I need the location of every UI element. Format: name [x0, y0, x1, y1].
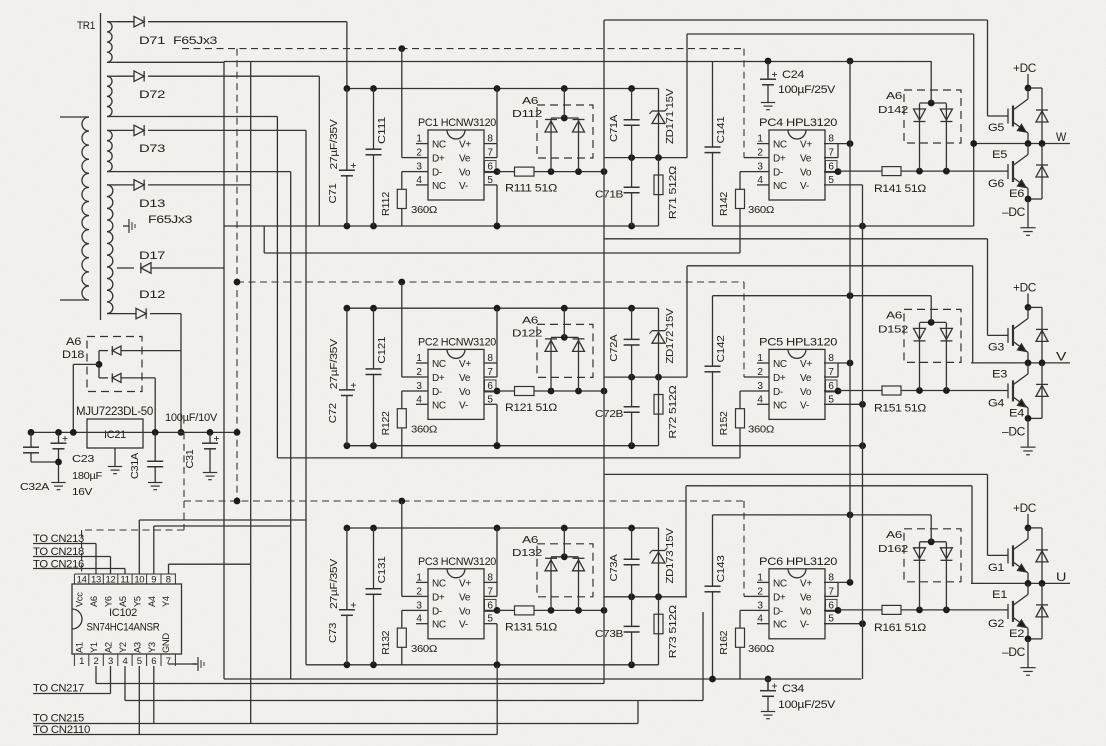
svg-text:PC3 HCNW3120: PC3 HCNW3120: [418, 556, 496, 568]
resistor R141 51 ohm: [882, 167, 901, 176]
svg-text:360Ω: 360Ω: [748, 423, 774, 435]
svg-text:SN74HC14ANSR: SN74HC14ANSR: [87, 622, 161, 634]
capacitor C31A: [154, 432, 156, 461]
wire G3 gate feed: [604, 238, 988, 240]
primary bottom lead: [60, 299, 89, 301]
PC6 D- to resistor R162: [740, 609, 757, 611]
svg-text:7: 7: [166, 656, 171, 667]
row2 supply rail top: [347, 307, 659, 309]
svg-text:14: 14: [77, 575, 87, 586]
D122 diode a: [550, 338, 552, 391]
svg-text:Y3: Y3: [147, 642, 157, 653]
PC5 pin 6 number box: [826, 380, 838, 392]
svg-text:PC1 HCNW3120: PC1 HCNW3120: [418, 117, 496, 129]
svg-text:D18: D18: [62, 349, 84, 361]
svg-text:Vo: Vo: [800, 606, 812, 617]
svg-text:13: 13: [91, 575, 101, 586]
PC6 D+ from dashed bus: [744, 595, 757, 597]
wire pin10 Y5 feed: [138, 520, 140, 574]
diode D12: [117, 313, 136, 315]
wire E1 reference: [686, 485, 972, 487]
svg-text:3: 3: [416, 600, 422, 611]
svg-text:C31: C31: [184, 449, 196, 468]
svg-text:Ve: Ve: [459, 592, 471, 603]
PC3 V+ pins 7 8 to rail: [484, 581, 497, 583]
TR1 secondary winding 3: [107, 130, 112, 171]
svg-text:ZD171 15V: ZD171 15V: [664, 89, 676, 144]
freewheel diode G1: [1028, 527, 1042, 529]
svg-text:100µF/25V: 100µF/25V: [778, 84, 836, 96]
capacitor C34 100uF/25V: [767, 678, 769, 691]
wire Vo to clamp diodes: [534, 171, 604, 173]
resistor R142 360 ohm: [736, 189, 745, 208]
row3 supply rail top: [347, 527, 659, 529]
node E2 emitter: [1025, 636, 1032, 643]
PC6 pin 6 number box: [826, 599, 838, 611]
svg-text:Vo: Vo: [459, 606, 471, 617]
svg-text:1: 1: [757, 353, 763, 364]
svg-text:1: 1: [416, 134, 422, 145]
svg-text:V+: V+: [459, 578, 471, 589]
svg-text:G4: G4: [988, 397, 1004, 409]
svg-text:1: 1: [416, 572, 422, 583]
svg-text:C73B: C73B: [595, 628, 623, 640]
svg-text:1: 1: [79, 656, 84, 667]
svg-text:E5: E5: [992, 149, 1007, 161]
diode D71: [117, 21, 134, 23]
svg-text:E6: E6: [1009, 188, 1024, 200]
wire CN2110 riser: [496, 665, 498, 735]
freewheel diode G5: [1028, 87, 1042, 89]
op-amp PC3 HCNW3120 gate driver: [428, 569, 484, 639]
svg-text:Vo: Vo: [459, 387, 471, 398]
svg-text:D+: D+: [773, 373, 786, 384]
svg-text:4: 4: [416, 614, 422, 625]
svg-text:A4: A4: [147, 596, 157, 607]
node U top: [1025, 525, 1032, 532]
svg-text:Ve: Ve: [459, 373, 471, 384]
svg-text:C73A: C73A: [608, 554, 620, 581]
wire Vo to clamp diodes: [534, 390, 604, 392]
svg-text:C31A: C31A: [129, 453, 141, 479]
capacitor C111: [373, 89, 375, 227]
wire winding2 return: [117, 116, 277, 118]
svg-text:C131: C131: [376, 556, 388, 584]
svg-text:C24: C24: [782, 69, 804, 81]
PC3 V- pin 5 to rail: [484, 623, 497, 625]
PC5 D+ from dashed bus: [744, 376, 757, 378]
PC6 Vo pin 6 output: [824, 609, 838, 611]
wire vertical bus x264: [263, 226, 265, 253]
svg-text:D+: D+: [432, 154, 445, 165]
svg-text:F65Jx3: F65Jx3: [148, 214, 192, 226]
svg-text:360Ω: 360Ω: [411, 423, 437, 435]
svg-text:4: 4: [757, 394, 763, 405]
svg-text:A1: A1: [75, 642, 85, 653]
svg-text:R112: R112: [380, 192, 392, 216]
svg-text:G2: G2: [988, 618, 1004, 630]
svg-text:C72: C72: [327, 403, 339, 423]
wire R152 return: [277, 457, 740, 459]
svg-text:360Ω: 360Ω: [411, 643, 437, 655]
svg-text:C141: C141: [715, 116, 727, 144]
op-amp PC5 HPL3120 gate driver: [769, 349, 825, 419]
svg-text:+DC: +DC: [1013, 503, 1036, 515]
svg-text:100µF/10V: 100µF/10V: [165, 412, 218, 424]
PC4 pin 6 number box: [826, 161, 838, 173]
svg-text:6: 6: [151, 656, 156, 667]
svg-text:Ve: Ve: [459, 154, 471, 165]
wire D12 to IC21 rail: [180, 314, 182, 433]
node W phase output: [971, 143, 1070, 145]
svg-text:12: 12: [106, 575, 116, 586]
D132 diode a: [550, 557, 552, 610]
TR1 secondary winding 1: [107, 22, 112, 63]
PC1 pin 6 number box: [485, 161, 497, 173]
resistor R131 51 ohm: [515, 606, 535, 615]
svg-text:V+: V+: [800, 578, 812, 589]
svg-text:1: 1: [416, 353, 422, 364]
op-amp PC2 HCNW3120 gate driver: [428, 349, 484, 419]
svg-text:Ve: Ve: [800, 373, 812, 384]
svg-text:R132: R132: [380, 630, 392, 654]
PC4 Ve pin 7 stub: [824, 157, 838, 159]
svg-text:C73: C73: [327, 623, 339, 643]
svg-text:D112: D112: [512, 108, 543, 120]
zener ZD173 15V: [658, 528, 660, 597]
svg-text:5: 5: [137, 656, 142, 667]
wire R141 to gate: [901, 170, 1008, 172]
svg-text:2: 2: [757, 148, 763, 159]
capacitor C73A: [631, 528, 633, 597]
wire D18 to rail: [73, 363, 99, 365]
svg-text:D73: D73: [139, 143, 165, 155]
svg-text:TO CN217: TO CN217: [33, 683, 84, 695]
D122 common cathode to rail: [551, 336, 579, 338]
PC1 D+ input riser: [402, 157, 416, 159]
op-amp PC6 HPL3120 gate driver: [769, 569, 825, 639]
svg-text:V+: V+: [459, 140, 471, 151]
svg-text:V-: V-: [800, 620, 809, 631]
PC5 Vo pin 6 output: [824, 390, 838, 392]
svg-text:3: 3: [108, 656, 113, 667]
capacitor C32A: [30, 432, 32, 447]
svg-text:E3: E3: [992, 368, 1007, 380]
svg-text:F65Jx3: F65Jx3: [173, 35, 217, 47]
capacitor C131: [373, 528, 375, 665]
svg-text:A2: A2: [104, 642, 114, 653]
svg-text:2: 2: [757, 586, 763, 597]
wire bottom link 2: [125, 700, 703, 702]
capacitor C72A: [631, 308, 633, 377]
transistor G6 IGBT low side: [1027, 144, 1029, 155]
svg-text:2: 2: [757, 367, 763, 378]
capacitor C72 27uF/35V electrolytic: [346, 308, 348, 446]
svg-text:NC: NC: [773, 578, 787, 589]
svg-text:A6: A6: [886, 309, 903, 321]
svg-text:R161 51Ω: R161 51Ω: [874, 622, 926, 634]
svg-text:A3: A3: [132, 642, 142, 653]
svg-text:D-: D-: [773, 606, 783, 617]
svg-text:16V: 16V: [72, 486, 92, 498]
svg-text:D-: D-: [432, 606, 442, 617]
dual clamp diode D132 dashed box: [537, 544, 593, 597]
PC4 D- to resistor R142: [740, 171, 757, 173]
dashed Vcc bus row2 horizontal: [237, 281, 744, 283]
svg-text:A6: A6: [522, 95, 539, 107]
D132 diode b: [578, 557, 580, 610]
PC1 V- pin 5 to rail: [484, 184, 497, 186]
D112 diode b: [578, 119, 580, 172]
svg-text:3: 3: [757, 600, 763, 611]
row2 supply rail bottom: [346, 445, 659, 447]
svg-text:V+: V+: [800, 140, 812, 151]
PC5 V+ pin 8 to bus: [824, 362, 850, 364]
zener ZD172 15V: [658, 308, 660, 377]
dual clamp diode D122 dashed box: [537, 324, 593, 377]
svg-text:360Ω: 360Ω: [411, 204, 437, 216]
svg-text:ZD173 15V: ZD173 15V: [664, 528, 676, 583]
svg-text:NC: NC: [432, 620, 446, 631]
svg-text:IC21: IC21: [104, 429, 126, 441]
svg-text:ZD172 15V: ZD172 15V: [664, 308, 676, 363]
svg-text:C23: C23: [72, 453, 95, 465]
svg-text:D+: D+: [773, 592, 786, 603]
svg-text:360Ω: 360Ω: [748, 204, 774, 216]
svg-text:Y6: Y6: [104, 596, 114, 607]
svg-text:R111 51Ω: R111 51Ω: [505, 183, 557, 195]
svg-text:C71A: C71A: [608, 115, 620, 142]
PC3 Vo pin 6 output: [484, 609, 497, 611]
svg-text:NC: NC: [773, 620, 787, 631]
svg-text:Ve: Ve: [800, 154, 812, 165]
wire bottom link row: [96, 683, 604, 685]
svg-text:Y5: Y5: [132, 596, 142, 607]
capacitor C141: [712, 61, 714, 226]
svg-text:Ve: Ve: [800, 592, 812, 603]
hex inverter IC102 SN74HC14ANSR: [72, 584, 182, 654]
svg-text:V-: V-: [459, 400, 468, 411]
svg-text:NC: NC: [773, 181, 787, 192]
svg-text:E2: E2: [1009, 628, 1024, 640]
wire vertical bus x277: [276, 117, 278, 458]
PC6 supply rail: [713, 514, 932, 516]
svg-text:8: 8: [166, 575, 171, 586]
svg-text:–DC: –DC: [1002, 647, 1025, 659]
svg-text:G5: G5: [988, 122, 1004, 134]
svg-text:D132: D132: [512, 547, 543, 559]
PC4 Vo pin 6 output: [824, 171, 838, 173]
svg-text:V-: V-: [800, 181, 809, 192]
capacitor C142: [712, 296, 714, 446]
svg-text:C142: C142: [715, 335, 727, 363]
supply rail from IC21: [29, 431, 237, 433]
svg-text:PC4 HPL3120: PC4 HPL3120: [759, 117, 837, 129]
PC6 V- pin 5 to bus: [824, 623, 863, 625]
svg-text:R142: R142: [718, 192, 730, 216]
D162 common cathode to rail: [920, 541, 947, 543]
PC3 D+ input riser: [402, 595, 416, 597]
PC5 D- to resistor R152: [740, 390, 757, 392]
svg-text:A6: A6: [886, 529, 903, 541]
resistor R72 512 ohm: [658, 377, 660, 446]
svg-text:NC: NC: [773, 359, 787, 370]
D132 common cathode to rail: [551, 556, 579, 558]
svg-text:V-: V-: [800, 400, 809, 411]
V- bus vertical: [862, 185, 864, 679]
wire winding1 return to bus: [117, 61, 224, 63]
wire vertical bus x306 from D73: [305, 130, 307, 664]
svg-text:D-: D-: [432, 168, 442, 179]
dual clamp diode D112 dashed box: [537, 105, 593, 158]
resistor R151 51 ohm: [882, 386, 901, 395]
resistor R122 360 ohm: [402, 390, 416, 392]
svg-text:MJU7223DL-50: MJU7223DL-50: [76, 406, 153, 418]
svg-text:V-: V-: [459, 620, 468, 631]
diode D73: [117, 129, 134, 131]
svg-text:R71 512Ω: R71 512Ω: [667, 166, 679, 220]
PC6 common rail bottom long: [224, 678, 861, 680]
row1 supply rail top: [347, 88, 659, 90]
svg-text:C111: C111: [376, 116, 388, 144]
svg-text:NC: NC: [432, 578, 446, 589]
D152 common cathode to rail: [920, 321, 947, 323]
svg-text:D-: D-: [773, 387, 783, 398]
capacitor C73B: [631, 597, 633, 665]
PC2 V+ pins 7 8 to rail: [484, 362, 497, 364]
wire pin3 riser: [110, 666, 112, 694]
svg-text:Vo: Vo: [800, 387, 812, 398]
svg-text:R141 51Ω: R141 51Ω: [874, 183, 926, 195]
diode D18b: [99, 377, 108, 379]
svg-text:D+: D+: [773, 154, 786, 165]
svg-text:D13: D13: [139, 198, 165, 210]
ground C23: [58, 478, 60, 483]
PC4 V- pin 5 to bus: [824, 184, 863, 186]
svg-text:Y4: Y4: [161, 596, 171, 607]
PC2 V- pin 5 to rail: [484, 403, 497, 405]
svg-text:R122: R122: [380, 411, 392, 435]
dashed Vcc link to IC102: [82, 529, 184, 531]
capacitor C71B: [631, 158, 633, 226]
svg-text:11: 11: [120, 575, 129, 586]
svg-text:A6: A6: [522, 534, 539, 546]
PC1 Vo pin 6 output: [484, 171, 497, 173]
D142 common cathode to rail: [920, 102, 947, 104]
svg-text:C32A: C32A: [20, 481, 49, 493]
dual diode D18 dashed box: [87, 337, 142, 392]
resistor R111 51 ohm: [515, 167, 535, 176]
freewheel diode G3: [1028, 306, 1042, 308]
svg-text:27µF/35V: 27µF/35V: [328, 339, 340, 389]
wire vertical bus x224: [223, 62, 225, 680]
wire E5 reference: [687, 33, 974, 35]
op-amp PC1 HCNW3120 gate driver: [428, 130, 484, 200]
PC5 common rail bottom: [713, 445, 867, 447]
PC4 V+ pin 8 to bus: [824, 143, 850, 145]
svg-text:R121 51Ω: R121 51Ω: [505, 402, 557, 414]
svg-text:A6: A6: [886, 90, 903, 102]
svg-text:4: 4: [757, 614, 763, 625]
svg-text:A5: A5: [118, 596, 128, 607]
op-amp PC4 HPL3120 gate driver: [769, 130, 825, 200]
svg-text:2: 2: [416, 367, 422, 378]
wire pin8 Y4 feed: [168, 564, 170, 574]
capacitor C73 27uF/35V electrolytic: [346, 528, 348, 665]
PC4 common rail bottom: [713, 225, 974, 227]
svg-text:NC: NC: [773, 400, 787, 411]
svg-text:3: 3: [416, 162, 422, 173]
wire D18 anodes join: [98, 351, 100, 378]
transistor G4 IGBT low side: [1027, 363, 1029, 374]
svg-text:C71: C71: [327, 183, 339, 203]
wire R142 return: [264, 252, 740, 254]
node E6 emitter: [1025, 196, 1032, 203]
svg-text:D-: D-: [432, 387, 442, 398]
capacitor C71A: [631, 89, 633, 158]
svg-text:D17: D17: [139, 250, 165, 262]
ground at winding 4: [123, 225, 129, 227]
row1 mid reference node line: [604, 157, 687, 159]
ground V stage: [1027, 418, 1029, 442]
svg-text:Y2: Y2: [118, 642, 128, 653]
svg-text:C72B: C72B: [595, 408, 623, 420]
dual clamp diode D142 dashed box: [904, 90, 961, 143]
zener ZD171 15V: [658, 89, 660, 158]
svg-text:4: 4: [416, 394, 422, 405]
wire pin2 riser: [95, 666, 97, 684]
svg-text:PC2 HCNW3120: PC2 HCNW3120: [418, 336, 496, 348]
ground U stage: [1027, 639, 1029, 663]
svg-text:PC6 HPL3120: PC6 HPL3120: [759, 556, 837, 568]
svg-text:NC: NC: [432, 181, 446, 192]
svg-text:2: 2: [416, 586, 422, 597]
svg-text:D71: D71: [139, 35, 165, 47]
dashed Vcc bus row3 horizontal: [184, 500, 744, 502]
transistor G2 IGBT low side: [1027, 583, 1029, 594]
node V phase output: [971, 362, 1070, 364]
ground W stage: [1027, 199, 1029, 223]
svg-text:C72A: C72A: [608, 334, 620, 361]
PC2 Vo pin 6 output: [484, 390, 497, 392]
svg-text:1: 1: [757, 134, 763, 145]
regulator IC21: [87, 419, 143, 448]
svg-text:27µF/35V: 27µF/35V: [328, 119, 340, 169]
dashed Vcc bus vertical x237: [236, 49, 238, 501]
svg-text:NC: NC: [432, 400, 446, 411]
capacitor C23: [58, 432, 60, 443]
PC6 V+ pin 8 to bus: [824, 581, 850, 583]
svg-text:3: 3: [416, 381, 422, 392]
freewheel diode G4: [1028, 417, 1042, 419]
PC6 Ve pin 7 stub: [824, 595, 838, 597]
svg-text:E4: E4: [1009, 407, 1024, 419]
svg-text:R131 51Ω: R131 51Ω: [505, 621, 557, 633]
svg-text:TO CN215: TO CN215: [33, 713, 84, 725]
TR1 secondary winding 4: [107, 185, 113, 314]
dual clamp diode D152 dashed box: [904, 309, 961, 362]
svg-text:R73 512Ω: R73 512Ω: [667, 605, 679, 659]
capacitor C31: [209, 432, 211, 443]
svg-text:–DC: –DC: [1002, 426, 1025, 438]
wire CN216 to pin11: [124, 569, 126, 575]
resistor R161 51 ohm: [882, 605, 901, 614]
svg-text:D+: D+: [432, 373, 445, 384]
svg-text:D-: D-: [773, 168, 783, 179]
svg-text:V+: V+: [800, 359, 812, 370]
svg-text:C71B: C71B: [595, 189, 623, 201]
svg-text:Vo: Vo: [800, 168, 812, 179]
